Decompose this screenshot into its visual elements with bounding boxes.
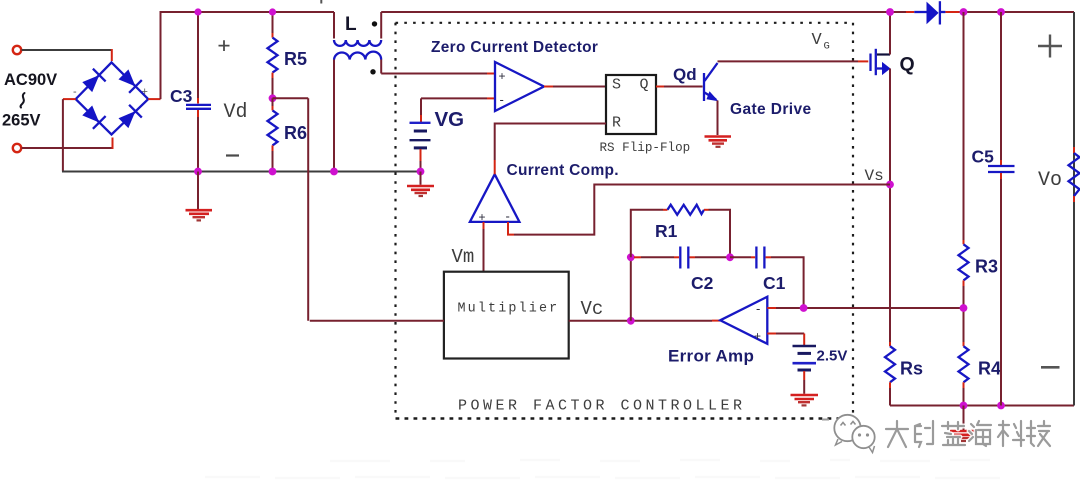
wire right edge xyxy=(1073,12,1075,406)
wire VG gate line xyxy=(718,60,869,62)
resistor R4 xyxy=(959,342,969,406)
svg-text:+: + xyxy=(499,69,506,83)
resistor R1 xyxy=(631,205,730,257)
svg-text:Multiplier: Multiplier xyxy=(458,302,560,317)
wire ground bus xyxy=(62,171,421,173)
wire multiplier left input xyxy=(310,320,444,322)
svg-text:Vs: Vs xyxy=(865,167,884,185)
ground below 2.5V battery xyxy=(791,395,819,405)
svg-text:VG: VG xyxy=(435,108,465,131)
wire bottom terminal to bridge xyxy=(22,138,113,150)
svg-text:R5: R5 xyxy=(284,49,307,69)
wire error amp minus input line xyxy=(767,302,963,308)
svg-text:AC90V: AC90V xyxy=(4,71,57,89)
svg-text:L: L xyxy=(345,14,357,35)
resistor load Vo xyxy=(1069,147,1080,202)
wire top rail right section xyxy=(381,11,1074,13)
svg-text:C5: C5 xyxy=(972,147,995,167)
wire Current Comp output to R input xyxy=(495,124,606,175)
AC input terminal bottom xyxy=(13,144,21,152)
bridge diode top-right xyxy=(117,68,142,93)
wire R3 from rail xyxy=(963,12,965,244)
wire bridge minus corner down xyxy=(62,99,64,171)
svg-text:R4: R4 xyxy=(978,359,1001,379)
node VG ground bus xyxy=(417,168,425,176)
svg-text:R1: R1 xyxy=(655,221,678,241)
svg-text:+: + xyxy=(142,86,148,98)
svg-text:Vc: Vc xyxy=(581,298,604,320)
inductor L primary winding xyxy=(334,12,381,46)
node R5 R6 junction xyxy=(269,94,277,102)
wire Qd emitter down xyxy=(717,101,719,136)
artifact top tick xyxy=(320,0,322,4)
resistor R3 xyxy=(959,244,969,280)
svg-text:Vm: Vm xyxy=(452,246,475,268)
svg-text:R: R xyxy=(612,115,621,132)
op-amp Zero Current Detector xyxy=(495,62,544,111)
svg-text:V: V xyxy=(812,31,823,50)
MOSFET Q xyxy=(871,49,891,75)
node R1 C2 C1 junction xyxy=(726,253,734,261)
resistor R5 xyxy=(268,12,278,98)
svg-text:Vd: Vd xyxy=(224,101,248,124)
svg-text:Zero Current Detector: Zero Current Detector xyxy=(431,39,598,56)
wire Q output to Qd base xyxy=(656,86,703,88)
wire top rail left section xyxy=(160,11,335,13)
faint caption smudge xyxy=(205,460,1000,478)
node Vs junction xyxy=(886,181,894,189)
svg-text:C3: C3 xyxy=(170,86,193,106)
svg-text:Gate Drive: Gate Drive xyxy=(730,101,812,118)
node C3 top rail xyxy=(194,8,201,15)
inductor phasing dot bottom xyxy=(370,69,375,74)
capacitor C3 xyxy=(186,12,211,172)
node R3 top rail xyxy=(960,8,968,16)
wire bottom bus xyxy=(890,405,1074,407)
diode boost top xyxy=(914,1,945,24)
svg-text:G: G xyxy=(824,41,830,53)
node Vc feedback junction xyxy=(627,317,635,325)
svg-text:RS Flip-Flop: RS Flip-Flop xyxy=(600,141,691,155)
op-amp Current Comp xyxy=(470,174,520,224)
transistor Qd xyxy=(704,63,719,101)
inductor phasing dot top xyxy=(372,21,377,26)
node inductor ground bus xyxy=(330,168,338,176)
wire Vs line xyxy=(508,185,890,235)
capacitor C1 xyxy=(730,247,804,303)
wire Vc output xyxy=(569,320,721,322)
svg-text:Error Amp: Error Amp xyxy=(668,347,754,366)
label output minus xyxy=(1041,366,1060,369)
svg-text:Q: Q xyxy=(900,54,915,76)
svg-text:+: + xyxy=(479,210,486,224)
wire ZCD plus input xyxy=(381,73,495,75)
svg-text:-: - xyxy=(756,301,760,316)
bridge diode top-left xyxy=(81,69,106,94)
wire ZCD minus input xyxy=(421,97,495,99)
bridge rectifier xyxy=(63,62,161,134)
battery VG xyxy=(410,98,431,171)
bridge diode bottom-left xyxy=(81,104,106,129)
svg-text:R3: R3 xyxy=(975,257,998,277)
label output plus xyxy=(1038,35,1062,58)
node C5 bottom xyxy=(997,402,1005,410)
svg-text:-: - xyxy=(73,86,77,98)
inductor L secondary winding xyxy=(334,52,381,172)
ground below VG xyxy=(407,172,434,197)
ground below Qd xyxy=(705,137,732,147)
capacitor C5 xyxy=(988,12,1015,406)
svg-text:-: - xyxy=(500,92,504,107)
bridge diode bottom-right xyxy=(117,105,142,130)
wire top terminal to bridge xyxy=(22,49,112,61)
svg-text:Q: Q xyxy=(640,77,649,94)
node C5 top rail xyxy=(997,8,1005,16)
node R4 bottom xyxy=(960,402,968,410)
wire ZCD output to S input xyxy=(544,86,606,88)
label minus Vd xyxy=(226,154,239,156)
svg-text:Rs: Rs xyxy=(900,359,923,379)
node feedback top junction xyxy=(627,253,635,261)
svg-text:R6: R6 xyxy=(284,123,307,143)
resistor Rs xyxy=(885,342,895,406)
wire feedback vertical xyxy=(630,257,632,321)
wire R3 to junction xyxy=(963,280,965,342)
svg-text:Qd: Qd xyxy=(673,65,697,84)
svg-text:C1: C1 xyxy=(763,273,786,293)
svg-text:POWER FACTOR CONTROLLER: POWER FACTOR CONTROLLER xyxy=(458,398,746,415)
RS flip-flop box xyxy=(606,75,656,134)
svg-text:C2: C2 xyxy=(691,273,714,293)
wire Current Comp plus input to multiplier xyxy=(483,222,485,272)
artifact small mark xyxy=(822,419,829,421)
wire MOSFET source down to Rs xyxy=(889,69,891,343)
op-amp Error Amp xyxy=(720,297,767,344)
wire divider tap to multiplier xyxy=(273,98,309,320)
svg-text:2.5V: 2.5V xyxy=(817,348,848,365)
node C1 to minus line junction xyxy=(800,304,808,312)
svg-text:Current Comp.: Current Comp. xyxy=(507,162,619,179)
svg-text:-: - xyxy=(506,209,510,224)
wire error amp plus input xyxy=(767,334,804,346)
label plus Vd xyxy=(219,40,230,51)
battery 2.5V xyxy=(793,346,817,394)
node R3 R4 junction xyxy=(960,304,968,312)
AC input terminal top xyxy=(13,46,21,54)
dashed controller box xyxy=(396,23,855,419)
node C3 ground bus xyxy=(194,168,202,176)
multiplier box xyxy=(444,272,569,359)
svg-text:S: S xyxy=(612,77,621,94)
node R5 top rail xyxy=(269,8,276,15)
wire MOSFET drain up xyxy=(889,12,891,55)
label ~ tilde xyxy=(21,93,25,108)
svg-text:+: + xyxy=(754,329,761,343)
resistor R6 xyxy=(268,98,278,171)
svg-text:265V: 265V xyxy=(2,112,41,130)
svg-text:Vo: Vo xyxy=(1038,169,1062,192)
node R6 ground bus xyxy=(269,168,277,176)
wire bridge plus corner up to rail xyxy=(160,12,162,99)
watermark logo bubbles xyxy=(834,415,874,453)
node drain rail xyxy=(886,8,894,16)
ground below R4 xyxy=(950,406,977,442)
watermark text da yin lan hai ke ji xyxy=(886,421,1050,447)
capacitor C2 xyxy=(634,247,730,269)
ground below C3 xyxy=(186,172,213,221)
